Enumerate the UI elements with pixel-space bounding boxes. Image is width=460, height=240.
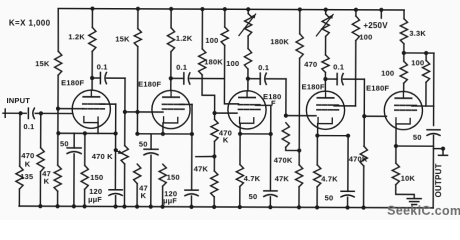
node bus tap 15K	[136, 7, 140, 11]
svg-text:100: 100	[411, 58, 424, 67]
resistor 1.2K plate load stage2	[170, 9, 172, 28]
svg-text:E180F: E180F	[61, 78, 84, 87]
node bus tap 1.2K st2	[169, 7, 173, 11]
svg-text:0.1: 0.1	[97, 62, 108, 71]
svg-text:4.7K: 4.7K	[244, 174, 261, 183]
wire screen V4	[334, 105, 355, 107]
svg-text:K: K	[223, 135, 229, 144]
node grid junction V4	[284, 114, 288, 118]
rheostat plate trim stage3	[247, 9, 249, 13]
node plate V3	[246, 77, 250, 81]
node OUTPUT terminal	[439, 154, 448, 156]
node plate V2	[169, 76, 173, 80]
resistor 100 plate stage3	[247, 36, 249, 48]
node grid of V1	[56, 107, 60, 111]
arrow rheostat 4	[316, 14, 333, 36]
resistor 10K cathode V5	[395, 146, 397, 163]
svg-text:E180F: E180F	[138, 80, 161, 89]
svg-text:10K: 10K	[401, 174, 416, 183]
svg-text:180K: 180K	[204, 57, 223, 66]
node cathode V5	[394, 144, 398, 148]
node bus tap 180K st4	[298, 7, 302, 11]
node input junction	[18, 111, 22, 115]
resistor 47K stage1	[54, 165, 61, 191]
svg-text:0.1: 0.1	[258, 63, 269, 72]
wire cathode rail stage5	[396, 145, 433, 147]
wire screen V5	[412, 105, 434, 107]
wire screen V2 to bypass	[180, 103, 192, 105]
node grid junction V2	[135, 110, 139, 114]
resistor 180K stage4 feed	[299, 10, 301, 34]
svg-text:15K: 15K	[115, 34, 130, 43]
capacitor 50 stage3	[264, 190, 277, 192]
svg-text:INPUT: INPUT	[7, 96, 31, 105]
wire B+ bus (top rail)	[58, 8, 404, 10]
wire coupling drop to V2 grid	[124, 78, 126, 112]
arrow of 470K potentiometer wiper	[114, 150, 122, 154]
wire screen V3 to bypass	[256, 104, 271, 106]
svg-text:100: 100	[205, 36, 218, 45]
wire 135 ohm drop	[19, 113, 21, 166]
node bus tap rheostat 3	[246, 7, 250, 11]
svg-text:470: 470	[304, 60, 317, 69]
wire cathode rail stage3	[240, 133, 271, 135]
svg-text:0.1: 0.1	[333, 62, 344, 71]
svg-text:μμF: μμF	[88, 195, 102, 204]
svg-text:470 K: 470 K	[92, 152, 113, 161]
wire input lead	[3, 112, 26, 114]
node grid junction V3	[212, 111, 216, 115]
capacitor 50 stage1	[73, 133, 75, 148]
resistor 47K stage4 lower	[298, 151, 300, 165]
node cathode junction stage1	[83, 131, 87, 135]
svg-text:E180F: E180F	[366, 83, 389, 92]
svg-text:OUTPUT: OUTPUT	[434, 163, 443, 197]
node divider junction	[212, 154, 216, 158]
tube V2 E180F	[152, 90, 190, 128]
svg-text:1.2K: 1.2K	[68, 32, 85, 41]
svg-text:K: K	[25, 160, 31, 169]
svg-text:50: 50	[413, 133, 422, 142]
svg-text:K: K	[44, 176, 50, 185]
node bus tap 100 screen	[354, 8, 358, 12]
node bus tap rheostat 4	[324, 8, 328, 12]
wire grid line V3	[215, 112, 237, 114]
wire ground bus (bottom rail)	[19, 206, 433, 208]
wire compensation column	[433, 53, 435, 125]
svg-text:100: 100	[226, 59, 239, 68]
resistor 100 plate V5	[400, 61, 407, 83]
node rail left	[135, 132, 139, 136]
svg-text:1.2K: 1.2K	[176, 34, 193, 43]
node cathode V4	[315, 133, 319, 137]
node coupling to grid V2	[123, 110, 127, 114]
node screen bypass on cathode rail V1	[113, 131, 117, 135]
tube V4 E180F	[306, 91, 344, 129]
capacitor 50 output	[427, 129, 440, 131]
resistor 180K screen feed stage3	[201, 9, 203, 49]
tube V3 E180F	[228, 91, 266, 129]
node INPUT terminal	[4, 109, 6, 117]
wire cathode rail stage2	[137, 133, 191, 135]
node grid network junction	[39, 111, 43, 115]
resistor 135	[16, 166, 23, 189]
node output tap	[441, 147, 445, 151]
node plate V4	[323, 77, 327, 81]
wire grid line V1	[58, 108, 83, 110]
capacitor 120 uuF stage2	[185, 189, 198, 191]
node bus tap 180K	[200, 7, 204, 11]
svg-text:3.3K: 3.3K	[409, 29, 426, 38]
svg-text:50: 50	[139, 139, 148, 148]
svg-text:150: 150	[167, 173, 180, 182]
node plate V1	[90, 76, 94, 80]
wire cathode V2 down	[162, 123, 164, 134]
wire cathode V4 down	[317, 124, 319, 136]
resistor 470K potentiometer stage2 grid	[124, 112, 126, 146]
resistor 100 screen V5	[425, 53, 427, 60]
wire coupling drop to V4 grid	[285, 79, 287, 116]
resistor 470 plate stage4	[325, 36, 327, 54]
svg-text:0.1: 0.1	[23, 122, 34, 131]
capacitor 0.1 coupling V1-V2	[92, 77, 100, 79]
svg-text:SeekiC.com: SeekiC.com	[387, 204, 460, 218]
svg-text:50: 50	[325, 193, 334, 202]
ground symbol near 10K	[396, 185, 415, 199]
svg-text:150: 150	[90, 173, 103, 182]
resistor 100 grid stopper V3 (from bus)	[224, 9, 226, 27]
node +250V supply tap	[379, 8, 383, 12]
svg-text:+250V: +250V	[363, 21, 388, 30]
svg-text:470: 470	[21, 151, 34, 160]
node rail right end	[190, 132, 194, 136]
resistor 470K grid V4	[282, 123, 289, 148]
wire plate-screen tee	[404, 52, 434, 54]
node divider junction st4	[297, 148, 301, 152]
resistor 47K stage3 lower	[211, 171, 218, 197]
resistor 4.7K stage4	[316, 136, 318, 165]
node grid junction V5	[362, 114, 366, 118]
svg-text:135: 135	[20, 172, 33, 181]
svg-text:47K: 47K	[194, 164, 209, 173]
svg-text:4.7K: 4.7K	[321, 174, 338, 183]
capacitor 0.1 coupling V3-V4	[248, 78, 260, 80]
wire screen V1 to bypass	[100, 103, 116, 105]
wire output branch	[433, 148, 443, 150]
capacitor 120 uuF stage1	[109, 189, 122, 191]
node screen feed tap	[424, 51, 428, 55]
capacitor input 0.1	[27, 108, 29, 118]
tube V5 E180F	[384, 91, 422, 129]
svg-text:K=X 1,000: K=X 1,000	[9, 18, 51, 27]
rheostat plate trim stage4	[325, 10, 327, 14]
resistor 15K stage1 (from B+ bus)	[57, 8, 59, 51]
node ground junctions	[38, 204, 42, 208]
capacitor 0.1 coupling V4-V5	[325, 78, 337, 80]
node bypass on rail st4	[346, 134, 350, 138]
node below 3.3K	[402, 51, 406, 55]
resistor 4.7K stage3	[239, 134, 241, 165]
svg-text:47K: 47K	[275, 174, 290, 183]
svg-text:100: 100	[359, 32, 372, 41]
svg-text:50: 50	[249, 192, 258, 201]
resistor 470K grid stage1	[37, 148, 44, 172]
svg-text:100: 100	[381, 68, 394, 77]
capacitor 0.1 coupling V2-V3	[171, 77, 184, 79]
resistor 150 stage1	[84, 133, 86, 165]
arrow rheostat 3	[239, 14, 256, 36]
node screen on rail V3	[269, 132, 273, 136]
resistor 100 screen feed V4	[355, 10, 357, 16]
svg-text:470K: 470K	[349, 154, 368, 163]
wire input to grid column	[41, 112, 73, 114]
wire 470K drop	[40, 113, 42, 147]
resistor 1.2K plate load stage1	[91, 9, 93, 28]
svg-text:μμF: μμF	[163, 196, 177, 205]
wire cathode V3 down	[239, 123, 241, 134]
wire cathode V1 down	[97, 123, 99, 134]
svg-text:50: 50	[60, 139, 69, 148]
resistor 3.3K plate feed	[403, 10, 405, 19]
capacitor 50 stage2	[150, 134, 152, 149]
node cathode V2	[161, 132, 165, 136]
resistor 47K stage2	[134, 164, 141, 184]
tube V1 E180F	[72, 90, 110, 128]
capacitor 50 stage4	[347, 136, 349, 192]
wire cathode V5 down	[395, 124, 397, 146]
svg-text:180K: 180K	[270, 37, 289, 46]
resistor 470K grid V3	[211, 119, 218, 141]
wire grid line V5	[364, 115, 386, 117]
svg-text:0.1: 0.1	[176, 63, 187, 72]
wire cathode rail stage1	[58, 132, 116, 134]
svg-text:E180F: E180F	[302, 82, 325, 91]
node cathode V3	[238, 132, 242, 136]
wire grid line V4	[286, 115, 316, 117]
node pot wiper tap	[114, 148, 118, 152]
wire cathode rail stage4	[317, 135, 348, 137]
wire stub to screen column	[196, 155, 215, 157]
node bus tap 1.2K	[90, 6, 94, 10]
resistor 150 stage2	[159, 164, 166, 186]
resistor 15K stage2 (bus to grid)	[137, 9, 139, 29]
wire grid line V2	[125, 111, 163, 113]
node grid-column on rail	[56, 131, 60, 135]
wire coupling drop to V5 grid	[363, 79, 365, 146]
svg-text:15K: 15K	[35, 59, 50, 68]
resistor 470K grid V5	[360, 146, 367, 166]
node bus tap 100	[223, 7, 227, 11]
svg-text:470K: 470K	[274, 155, 293, 164]
svg-text:F: F	[271, 99, 276, 108]
svg-text:K: K	[141, 191, 147, 200]
